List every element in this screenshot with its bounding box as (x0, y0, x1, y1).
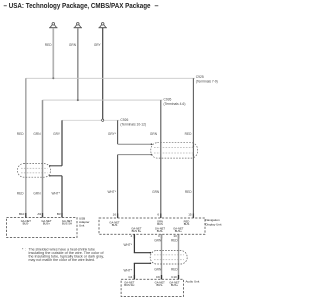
svg-text:–: – (155, 1, 159, 10)
shield stub dot bottom right (150, 263, 152, 265)
wire GRY from arrow 3 (102, 28, 104, 119)
svg-text:BUS-: BUS- (23, 221, 30, 225)
svg-text:BUS: BUS (157, 222, 163, 226)
svg-text:may not match the color of the: may not match the color of the wire list… (29, 258, 96, 262)
svg-text:Audio Unit: Audio Unit (186, 280, 200, 284)
svg-text:GRY: GRY (53, 132, 61, 136)
shield drain stub top (50, 165, 62, 167)
wire drop RED to C925 (192, 78, 194, 218)
svg-text:GRN: GRN (152, 190, 160, 194)
wire GRN bottom (161, 234, 163, 279)
svg-text:– USA: Technology Package, CMB: – USA: Technology Package, CMBS/PAX Pack… (4, 1, 151, 10)
bus wire 3 horizontal (62, 119, 119, 121)
shield stub dot top (49, 165, 51, 167)
svg-text:BUS SH: BUS SH (62, 221, 72, 225)
svg-text:B3: B3 (57, 212, 61, 216)
shield stub dot bottom (49, 175, 51, 177)
shield oval top-right inner line 2 (154, 152, 195, 154)
junction dot wire2 (77, 99, 79, 101)
svg-text:RED: RED (185, 190, 192, 194)
left wire RED vertical (25, 78, 27, 217)
svg-text:RED: RED (17, 191, 24, 195)
wire GRN from arrow 2 (77, 28, 79, 100)
svg-text:WHT*: WHT* (124, 243, 133, 247)
shield oval top-right inner line 1 (154, 147, 195, 149)
wire RED from arrow 1 (52, 28, 54, 78)
wire drop WHT to nav lower (117, 155, 119, 218)
svg-text:15: 15 (188, 212, 192, 216)
shield stub top-right oval upper (118, 143, 152, 145)
svg-text:GRN: GRN (33, 191, 41, 195)
svg-text:BUS: BUS (112, 223, 118, 227)
shield oval right (150, 251, 187, 264)
svg-text:Navigation: Navigation (206, 218, 221, 222)
USB adapter unit box (7, 218, 78, 238)
shield oval left inner line 1 (21, 167, 48, 169)
left wire GRY vertical upper (61, 120, 63, 166)
svg-text:B10: B10 (19, 212, 25, 216)
wire WHT lower (133, 263, 135, 279)
shield stub top-right oval lower (118, 154, 152, 156)
svg-text:GRN: GRN (154, 267, 162, 271)
svg-text:(Terminals 7-9): (Terminals 7-9) (196, 80, 218, 84)
svg-text:BUS B+: BUS B+ (132, 229, 142, 233)
svg-text:C926: C926 (164, 98, 172, 102)
svg-text:RED: RED (171, 267, 178, 271)
svg-text:WHT*: WHT* (124, 269, 133, 273)
svg-text:(Terminals 4-6): (Terminals 4-6) (164, 102, 186, 106)
svg-text:BUS+: BUS+ (171, 283, 179, 287)
svg-text:Unit: Unit (79, 224, 85, 228)
svg-text:WHT*: WHT* (108, 190, 117, 194)
junction dot wire1 (52, 77, 54, 79)
svg-text:C925: C925 (196, 75, 204, 79)
left wire GRN vertical (42, 100, 44, 217)
navigation display unit box (99, 218, 205, 234)
svg-text:A9: A9 (37, 212, 41, 216)
svg-text:RED: RED (171, 239, 178, 243)
svg-text::: : (25, 248, 26, 252)
shield drain stub bottom (50, 175, 62, 177)
bus wire 2 horizontal (43, 99, 163, 101)
svg-text:13: 13 (173, 234, 177, 238)
svg-text:C926: C926 (120, 118, 128, 122)
svg-text:16: 16 (113, 212, 117, 216)
svg-text:BUS+: BUS+ (43, 221, 51, 225)
wire drop GRY to C926 upper (117, 120, 119, 144)
audio unit box (121, 279, 183, 296)
svg-text:(Terminals 10-12): (Terminals 10-12) (120, 122, 146, 126)
svg-text:Display Unit: Display Unit (206, 223, 222, 227)
shield stub right-oval top (134, 252, 151, 254)
svg-text:BUS+: BUS+ (175, 229, 183, 233)
shield stub dot upper (151, 143, 153, 145)
shield stub dot lower (151, 154, 153, 156)
shield oval top-right (151, 143, 198, 158)
svg-text:BUS-: BUS- (157, 229, 164, 233)
shield oval right inner line 1 (154, 254, 184, 256)
shield stub dot top right (150, 252, 152, 254)
left wire GRY vertical lower (61, 176, 63, 218)
svg-text:WHT*: WHT* (52, 191, 61, 195)
svg-text:C4: C4 (128, 275, 132, 279)
svg-text:GRN: GRN (154, 239, 162, 243)
svg-text:GRY: GRY (94, 43, 102, 47)
bus wire 1 horizontal (26, 77, 195, 79)
svg-text:BUS-: BUS- (156, 283, 163, 287)
page arrow 1 (49, 23, 57, 28)
shield oval left (18, 164, 51, 178)
shield contact dot on RED wire upper (193, 145, 194, 146)
svg-text:RED: RED (45, 43, 52, 47)
svg-text:GRN: GRN (69, 43, 77, 47)
svg-text:BUS SH: BUS SH (124, 283, 134, 287)
svg-text:C10: C10 (171, 275, 177, 279)
shield oval left inner line 2 (21, 172, 48, 174)
svg-text:RED: RED (17, 132, 24, 136)
wire drop GRN to C926 (160, 100, 162, 218)
page arrow 3 (99, 23, 107, 28)
svg-text:C9: C9 (156, 275, 160, 279)
wire WHT upper (133, 234, 135, 252)
shield stub right-oval bottom (134, 262, 151, 264)
shield oval right inner line 2 (154, 259, 184, 261)
svg-text:BUS: BUS (184, 222, 190, 226)
page arrow 2 (74, 23, 82, 28)
shield contact dot on RED wire lower (193, 154, 194, 155)
svg-text:GRY*: GRY* (108, 132, 117, 136)
svg-text:GRN: GRN (150, 132, 158, 136)
svg-text:GRN: GRN (33, 132, 41, 136)
wire RED bottom (178, 234, 180, 279)
joint circle wire3 (102, 119, 104, 121)
svg-text:RED: RED (185, 132, 192, 136)
